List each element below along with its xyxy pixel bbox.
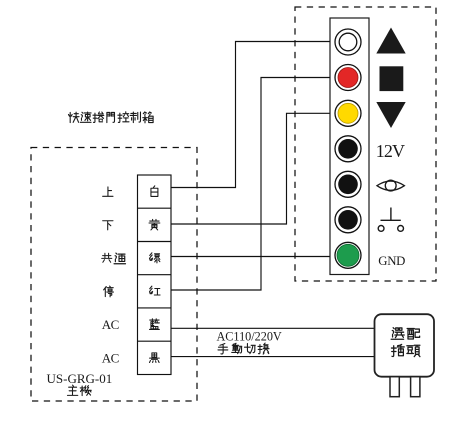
push button symbol bbox=[378, 208, 403, 232]
wire 紅-to-red pin bbox=[171, 78, 334, 291]
plug prong left bbox=[390, 377, 399, 397]
terminal label 黑 bbox=[150, 353, 160, 363]
wire 綠-to-green pin bbox=[171, 256, 335, 258]
pin 2 (red) bbox=[335, 65, 361, 91]
pin 5 (black, sensor) bbox=[335, 171, 361, 197]
terminal label 白 bbox=[151, 186, 158, 197]
wire 黑-to-plug (AC) bbox=[171, 356, 375, 358]
row label 共通 bbox=[102, 253, 126, 264]
pin 1 (white) bbox=[335, 29, 361, 55]
label 手動切換 bbox=[218, 343, 269, 354]
wire 黃-to-yellow pin bbox=[171, 113, 334, 224]
connector body J1 bbox=[330, 18, 369, 275]
terminal label 藍 bbox=[150, 319, 160, 330]
terminal label 黃 bbox=[149, 219, 160, 230]
svg-text:GND: GND bbox=[378, 254, 405, 268]
pin 6 (black, button) bbox=[335, 207, 361, 233]
terminal cell dividers bbox=[138, 208, 172, 341]
up arrow symbol bbox=[376, 28, 405, 54]
sensor eye symbol bbox=[377, 180, 404, 191]
svg-text:AC: AC bbox=[102, 317, 119, 332]
pin 3 (yellow) bbox=[335, 100, 361, 126]
svg-text:AC: AC bbox=[102, 350, 119, 365]
row label 上 bbox=[103, 187, 113, 196]
terminal label 紅 bbox=[150, 286, 161, 295]
svg-text:US-GRG-01: US-GRG-01 bbox=[47, 371, 113, 386]
svg-text:AC110/220V: AC110/220V bbox=[217, 329, 282, 343]
wire 藍-to-plug (AC) bbox=[171, 327, 375, 329]
controller connector enclosure (dashed) bbox=[295, 7, 436, 281]
label 主機 bbox=[67, 385, 91, 396]
svg-text:12V: 12V bbox=[376, 141, 405, 161]
plug prong right bbox=[411, 377, 420, 397]
optional plug box bbox=[375, 314, 435, 377]
row label 停 bbox=[104, 286, 114, 297]
terminal strip TB1 outline bbox=[138, 175, 172, 375]
control box enclosure (dashed) bbox=[31, 148, 197, 402]
pin 7 (green, GND) bbox=[335, 242, 361, 268]
row label 下 bbox=[103, 221, 113, 230]
pin 4 (black, 12V) bbox=[335, 136, 361, 162]
wire 白-to-white pin bbox=[171, 42, 333, 188]
title 快速捲門控制箱 bbox=[68, 112, 153, 123]
terminal label 綠 bbox=[150, 253, 160, 263]
stop square symbol bbox=[380, 66, 404, 91]
label 選配插頭 bbox=[391, 328, 420, 357]
down arrow symbol bbox=[376, 102, 405, 128]
